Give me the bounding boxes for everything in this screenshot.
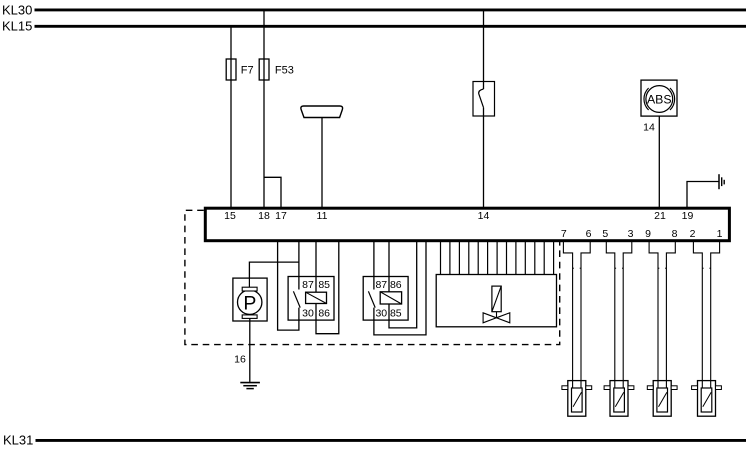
svg-text:21: 21 [654,210,666,222]
wire switch S2 to pin 14 [483,108,485,208]
ground (chassis) top right [719,174,724,189]
wire pump to ground [249,318,251,382]
svg-text:14: 14 [478,210,490,222]
svg-text:KL30: KL30 [2,2,32,17]
wire ECU to valve block line 8 [506,242,508,275]
svg-text:17: 17 [275,210,287,222]
wire S1 to pin 11 [321,118,323,209]
svg-text:87: 87 [375,279,387,291]
svg-text:1: 1 [717,228,723,240]
svg-text:19: 19 [682,210,694,222]
svg-text:15: 15 [224,210,236,222]
wire ECU to valve block line 1 [440,242,442,275]
fuse F7 [226,59,236,80]
svg-text:F7: F7 [241,65,254,77]
wire KL15 bus [35,25,746,28]
wire ECU to valve block line 9 [515,242,517,275]
wire relay K1 coil return [316,242,339,334]
wire ECU to relay K2 contact 87 [373,242,375,290]
wire ECU to valve block line 2 [449,242,451,275]
wire sensor B2 left lead [606,242,615,389]
dashed enclosure (hydraulic unit) [185,210,560,344]
wire sensor B4 left lead [693,242,702,389]
wire sensor B1 right lead [581,242,590,389]
wire ECU to valve block line 10 [524,242,526,275]
wire fuse F53 to pin 18 [263,80,265,208]
ground (pump) [240,383,260,389]
wire ECU to valve block line 7 [496,242,498,275]
wire sensor B2 right lead [623,242,632,389]
relay K2 coil [380,292,401,304]
svg-text:6: 6 [586,228,592,240]
wheel speed sensor B3 body [647,381,677,417]
svg-text:11: 11 [317,210,328,222]
wire pump to relay K1 feed [249,262,299,278]
wire ECU to relay K1 coil top [315,242,317,293]
wire ECU to relay K2 coil top [388,242,390,292]
relay K2 body [363,277,408,321]
wire sensor B1 left lead [563,242,572,389]
wire KL31 bus [36,439,746,442]
pump motor M1 [233,278,267,321]
svg-text:KL31: KL31 [3,432,33,447]
svg-text:16: 16 [234,353,246,365]
wire relay K1 pin 30 return [278,242,299,331]
svg-text:86: 86 [390,279,402,291]
wire KL15 to fuse F7 [230,26,232,59]
wire ECU to relay K1 contact 87 [298,242,300,290]
relay K1 body [288,277,334,321]
svg-text:9: 9 [645,228,651,240]
wire ECU to valve block line 6 [487,242,489,275]
wire KL30 to fuse F53 [263,10,265,59]
wheel speed sensor B1 body [562,381,592,417]
wire sensor B3 right lead [666,242,675,389]
svg-text:5: 5 [602,228,608,240]
junction ticks sensor B1 leads [573,267,581,269]
svg-text:14: 14 [643,122,655,134]
svg-text:7: 7 [561,228,567,240]
switch S1 (pedal contact plate) [301,106,343,118]
svg-text:P: P [243,292,256,314]
svg-text:30: 30 [375,308,387,320]
control unit U1 (ABS ECU) [205,208,729,241]
wire ECU to valve block line 5 [477,242,479,275]
relay K2 contact blade [368,291,375,307]
wire pump inside tab [248,278,250,287]
svg-text:85: 85 [390,308,402,320]
wire ECU to valve block line 11 [534,242,536,275]
wire ECU to valve block line 13 [553,242,555,275]
wire pin 19 to ground [687,182,719,209]
fuse F53 [259,59,269,80]
svg-text:ABS: ABS [647,93,672,107]
svg-text:87: 87 [302,279,314,291]
wire relay K2 coil return [389,242,417,328]
valve block Y1 body [436,275,556,327]
junction ticks sensor B3 leads [658,267,666,269]
wire branch to pin 17 [264,177,281,208]
wire fuse F7 to pin 15 [230,80,232,208]
wire relay K2 pin 30 return [374,242,426,335]
ABS warning lamp H1 [641,80,677,116]
junction ticks sensor B4 leads [702,267,710,269]
svg-text:85: 85 [318,279,330,291]
svg-text:86: 86 [318,308,330,320]
svg-text:KL15: KL15 [2,19,32,34]
wire sensor B3 left lead [649,242,658,389]
valve symbol [483,286,510,323]
svg-text:30: 30 [302,308,314,320]
switch S2 [473,82,495,117]
svg-text:2: 2 [690,228,696,240]
wire sensor B4 right lead [711,242,720,389]
wire ECU to valve block line 12 [543,242,545,275]
junction ticks sensor B2 leads [615,267,623,269]
wheel speed sensor B2 body [604,381,634,417]
svg-text:8: 8 [672,228,678,240]
wire ECU to valve block line 3 [458,242,460,275]
svg-text:F53: F53 [275,65,294,77]
relay K1 contact blade [293,291,300,307]
wire lamp H1 to pin 21 [658,116,660,208]
relay K1 coil [306,292,327,303]
svg-text:3: 3 [628,228,634,240]
svg-text:18: 18 [258,210,270,222]
wire KL30 bus [35,8,746,11]
wheel speed sensor B4 body [692,381,722,417]
wire ECU to valve block line 4 [468,242,470,275]
wire KL30 to switch S2 [483,10,485,89]
